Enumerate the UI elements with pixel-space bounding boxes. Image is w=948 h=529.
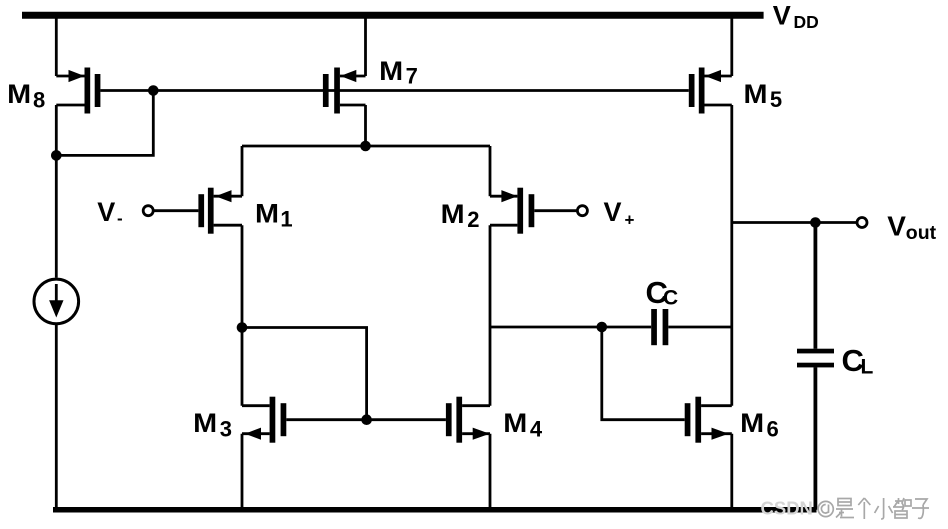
- wire M1 source up: [241, 146, 244, 196]
- wire M6 source to ground: [730, 434, 733, 510]
- VDD rail: [22, 12, 764, 19]
- svg-text:-: -: [117, 209, 123, 228]
- svg-text:5: 5: [770, 87, 782, 112]
- current source: [34, 279, 79, 324]
- M5 label: [744, 79, 783, 112]
- watermark @是个小智子: [818, 498, 929, 519]
- svg-text:M: M: [441, 199, 465, 229]
- wire M2/M4 drain column: [489, 225, 492, 406]
- svg-text:6: 6: [767, 416, 779, 441]
- wire node A to M3 drain: [241, 328, 244, 406]
- svg-text:+: +: [625, 211, 635, 230]
- svg-text:V: V: [887, 210, 906, 241]
- wire M2 source up: [489, 146, 492, 196]
- transistor M5: [689, 68, 732, 114]
- svg-text:7: 7: [406, 64, 418, 89]
- wire CC to output column: [668, 326, 732, 329]
- svg-text:M: M: [193, 408, 217, 438]
- svg-text:4: 4: [530, 416, 543, 441]
- wire CL to ground rail: [814, 367, 818, 510]
- M8 label: [7, 79, 45, 113]
- ground rail: [53, 507, 817, 513]
- wire gate line M3-M4: [286, 418, 446, 421]
- svg-text:C: C: [663, 286, 678, 309]
- svg-text:V: V: [97, 197, 115, 227]
- svg-text:8: 8: [33, 88, 45, 113]
- svg-text:CSDN: CSDN: [761, 498, 813, 519]
- wire M1 drain to node A: [241, 225, 244, 327]
- terminal V-: [143, 206, 153, 216]
- svg-text:L: L: [861, 355, 874, 378]
- M6 label: [740, 408, 779, 441]
- Vout label: [887, 210, 936, 244]
- transistor M3: [242, 397, 286, 443]
- node M8 drain: [51, 150, 62, 161]
- wire M4 source to ground: [489, 434, 492, 510]
- wire VDD to M8 source: [55, 15, 58, 76]
- capacitor CC: [651, 309, 668, 345]
- node gate line: [148, 85, 159, 96]
- svg-text:M: M: [255, 198, 279, 228]
- CL label: [842, 343, 874, 378]
- svg-text:M: M: [740, 408, 764, 438]
- wire M7 drain to tail node: [364, 105, 367, 146]
- node gate M3-M4: [361, 414, 372, 425]
- M1 label: [255, 198, 293, 231]
- glyph 智: [893, 498, 911, 518]
- svg-text:M: M: [7, 79, 31, 109]
- svg-text:V: V: [604, 197, 622, 227]
- terminal Vout: [857, 218, 867, 228]
- wire VDD to M7 source: [364, 15, 367, 76]
- transistor M1: [198, 188, 242, 234]
- wire M3 diode connection: [242, 328, 367, 420]
- transistor M6: [685, 397, 732, 443]
- node output: [810, 217, 821, 228]
- transistor M4: [446, 397, 490, 443]
- wire current source top: [55, 155, 58, 277]
- wire M8 drain down: [55, 105, 58, 155]
- wire M5 drain / output column: [730, 105, 733, 406]
- wire output line: [732, 221, 856, 224]
- wire common source line: [242, 145, 490, 148]
- VDD label: [773, 0, 819, 32]
- M7 label: [379, 56, 418, 89]
- M2 label: [441, 199, 480, 232]
- svg-text:1: 1: [280, 206, 292, 231]
- M3 label: [193, 408, 232, 441]
- node CC tap: [597, 322, 608, 333]
- svg-text:M: M: [744, 79, 768, 109]
- transistor M2: [490, 188, 534, 234]
- transistor M7: [323, 68, 366, 114]
- glyph 小: [875, 498, 893, 519]
- wire output node to CL: [814, 223, 818, 349]
- svg-text:DD: DD: [794, 12, 819, 32]
- transistor M8: [56, 68, 100, 114]
- wire M8 diode connection: [56, 91, 153, 156]
- glyph 个: [858, 498, 870, 519]
- CC label: [646, 275, 679, 310]
- wire V- lead: [154, 209, 199, 212]
- svg-text:out: out: [906, 222, 937, 244]
- svg-text:2: 2: [467, 207, 479, 232]
- svg-text:3: 3: [220, 416, 232, 441]
- svg-text:M: M: [503, 408, 527, 438]
- glyph 子: [912, 499, 929, 518]
- V- label: [97, 197, 122, 228]
- wire gate line M8-M7-M5: [100, 89, 688, 92]
- wire V+ lead: [534, 209, 577, 212]
- M4 label: [503, 408, 543, 441]
- node A: [237, 322, 248, 333]
- terminal V+: [577, 206, 587, 216]
- svg-text:M: M: [379, 56, 403, 86]
- wire M6 gate connection: [602, 327, 685, 420]
- svg-text:V: V: [773, 0, 791, 30]
- wire drain node to CC: [490, 326, 651, 329]
- node tail: [360, 141, 371, 152]
- wire current source to ground rail: [55, 324, 58, 510]
- capacitor CL: [797, 349, 834, 368]
- glyph 是: [836, 499, 854, 518]
- wire VDD to M5 source: [730, 15, 733, 76]
- V+ label: [604, 197, 635, 230]
- wire M3 source to ground: [241, 434, 244, 510]
